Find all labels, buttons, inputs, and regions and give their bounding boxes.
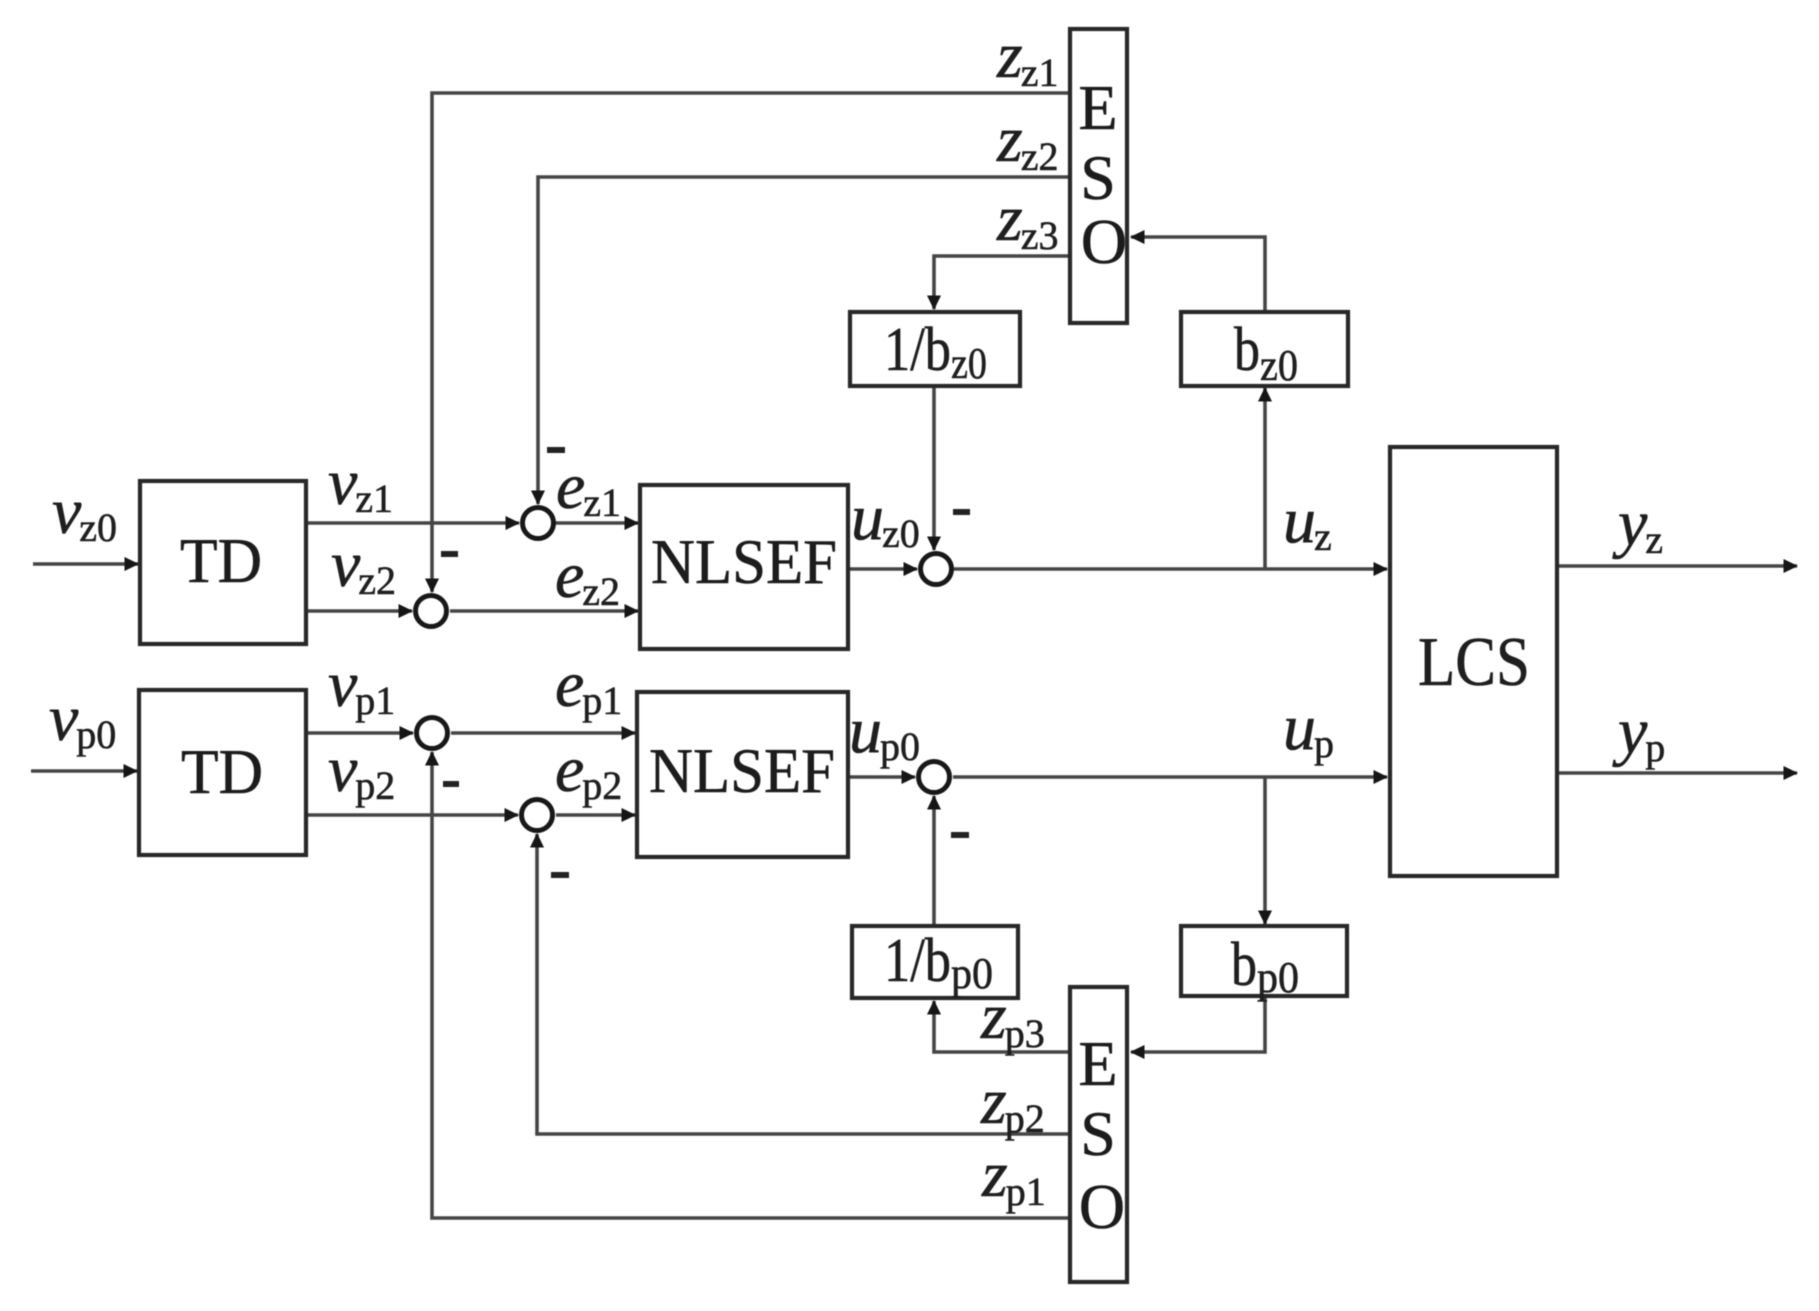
svg-text:LCS: LCS <box>1418 624 1530 701</box>
block NLSEF2 <box>637 692 848 857</box>
minus sign at e_p2 junction <box>551 872 569 878</box>
block NLSEF1 <box>640 485 848 649</box>
svg-text:TD: TD <box>181 736 263 807</box>
wire u_p to LCS <box>953 775 1387 779</box>
svg-text:yz: yz <box>1612 487 1663 562</box>
svg-text:O: O <box>1081 206 1127 277</box>
wire u_p0 <box>848 775 915 779</box>
svg-text:O: O <box>1079 1171 1125 1242</box>
wire z_z2 feedback <box>538 177 1070 504</box>
wire e_p1 <box>451 731 635 735</box>
svg-text:vp1: vp1 <box>328 648 395 723</box>
wire v_p0 input <box>31 769 137 773</box>
wire z_z3 <box>934 256 1070 309</box>
wire z_p3 <box>934 1001 1070 1052</box>
svg-text:NLSEF: NLSEF <box>649 735 835 806</box>
svg-text:E: E <box>1078 72 1117 143</box>
svg-text:zz1: zz1 <box>996 19 1058 95</box>
svg-text:zz3: zz3 <box>996 182 1058 258</box>
svg-text:zp2: zp2 <box>980 1065 1045 1141</box>
plant block LCS <box>1390 447 1557 876</box>
wire y_p output <box>1558 771 1797 775</box>
wire v_z2 <box>306 609 412 613</box>
minus sign at e_p1 junction <box>443 781 459 787</box>
svg-text:ez2: ez2 <box>555 539 620 614</box>
summing junction u_z0 <box>921 554 952 585</box>
wire e_p2 <box>556 813 635 817</box>
block TD2 <box>139 690 306 855</box>
block TD1 <box>140 481 306 644</box>
wire b_p0 output to ESO2 <box>1131 996 1265 1052</box>
gain block b_p0 <box>1181 926 1347 1002</box>
svg-text:vz1: vz1 <box>328 446 393 521</box>
svg-text:TD: TD <box>180 525 262 596</box>
svg-text:zp1: zp1 <box>981 1138 1046 1214</box>
wire u_z to LCS <box>954 567 1387 571</box>
wire b_p0 tap from u_p <box>1263 777 1267 924</box>
wire e_z2 <box>450 609 638 613</box>
gain block b_z0 <box>1181 312 1348 390</box>
summing junction e_z1 <box>523 508 554 539</box>
summing junction e_p1 <box>417 718 448 749</box>
summing junction u_p0 <box>919 762 950 793</box>
svg-text:vp2: vp2 <box>328 733 395 808</box>
minus sign at u_z0 junction <box>953 509 970 515</box>
wire u_z0 <box>848 567 917 571</box>
svg-text:S: S <box>1080 1098 1116 1169</box>
minus sign at u_p0 junction <box>951 832 969 838</box>
svg-text:up0: up0 <box>849 694 920 769</box>
wire y_z output <box>1558 564 1797 568</box>
wire e_z1 <box>554 521 638 525</box>
wire v_p1 <box>307 731 413 735</box>
svg-text:NLSEF: NLSEF <box>651 526 837 597</box>
wire z_p1 feedback <box>432 752 1070 1218</box>
svg-text:E: E <box>1078 1028 1117 1099</box>
minus sign at e_z1 junction <box>547 447 565 453</box>
svg-text:ez1: ez1 <box>556 450 621 525</box>
svg-text:uz0: uz0 <box>851 481 920 556</box>
block ESO1 <box>1070 29 1127 323</box>
wire 1/b_p0 output <box>932 796 936 926</box>
svg-text:vp0: vp0 <box>49 682 116 757</box>
svg-text:ep1: ep1 <box>555 648 622 723</box>
svg-text:vz2: vz2 <box>331 528 396 603</box>
svg-text:vz0: vz0 <box>52 475 117 550</box>
wire z_p2 feedback <box>537 834 1070 1134</box>
svg-text:zz2: zz2 <box>996 103 1058 179</box>
svg-text:up: up <box>1283 691 1334 766</box>
svg-text:ep2: ep2 <box>555 733 622 808</box>
wire v_z0 input <box>33 562 138 566</box>
minus sign at e_z2 junction <box>441 551 458 557</box>
wire v_z1 <box>306 521 519 525</box>
block ESO2 <box>1070 987 1127 1282</box>
wire b_z0 output to ESO1 <box>1131 237 1265 312</box>
wire 1/b_z0 output <box>932 386 936 550</box>
wire v_p2 <box>307 813 518 817</box>
svg-text:yp: yp <box>1612 695 1665 770</box>
svg-text:S: S <box>1080 142 1116 213</box>
wire b_z0 tap from u_z <box>1263 388 1267 569</box>
gain block 1/b_z0 <box>850 312 1020 388</box>
gain block 1/b_p0 <box>852 926 1018 998</box>
summing junction e_z2 <box>416 596 447 627</box>
summing junction e_p2 <box>522 800 553 831</box>
svg-text:uz: uz <box>1283 484 1332 559</box>
wire z_z1 feedback <box>432 93 1070 592</box>
